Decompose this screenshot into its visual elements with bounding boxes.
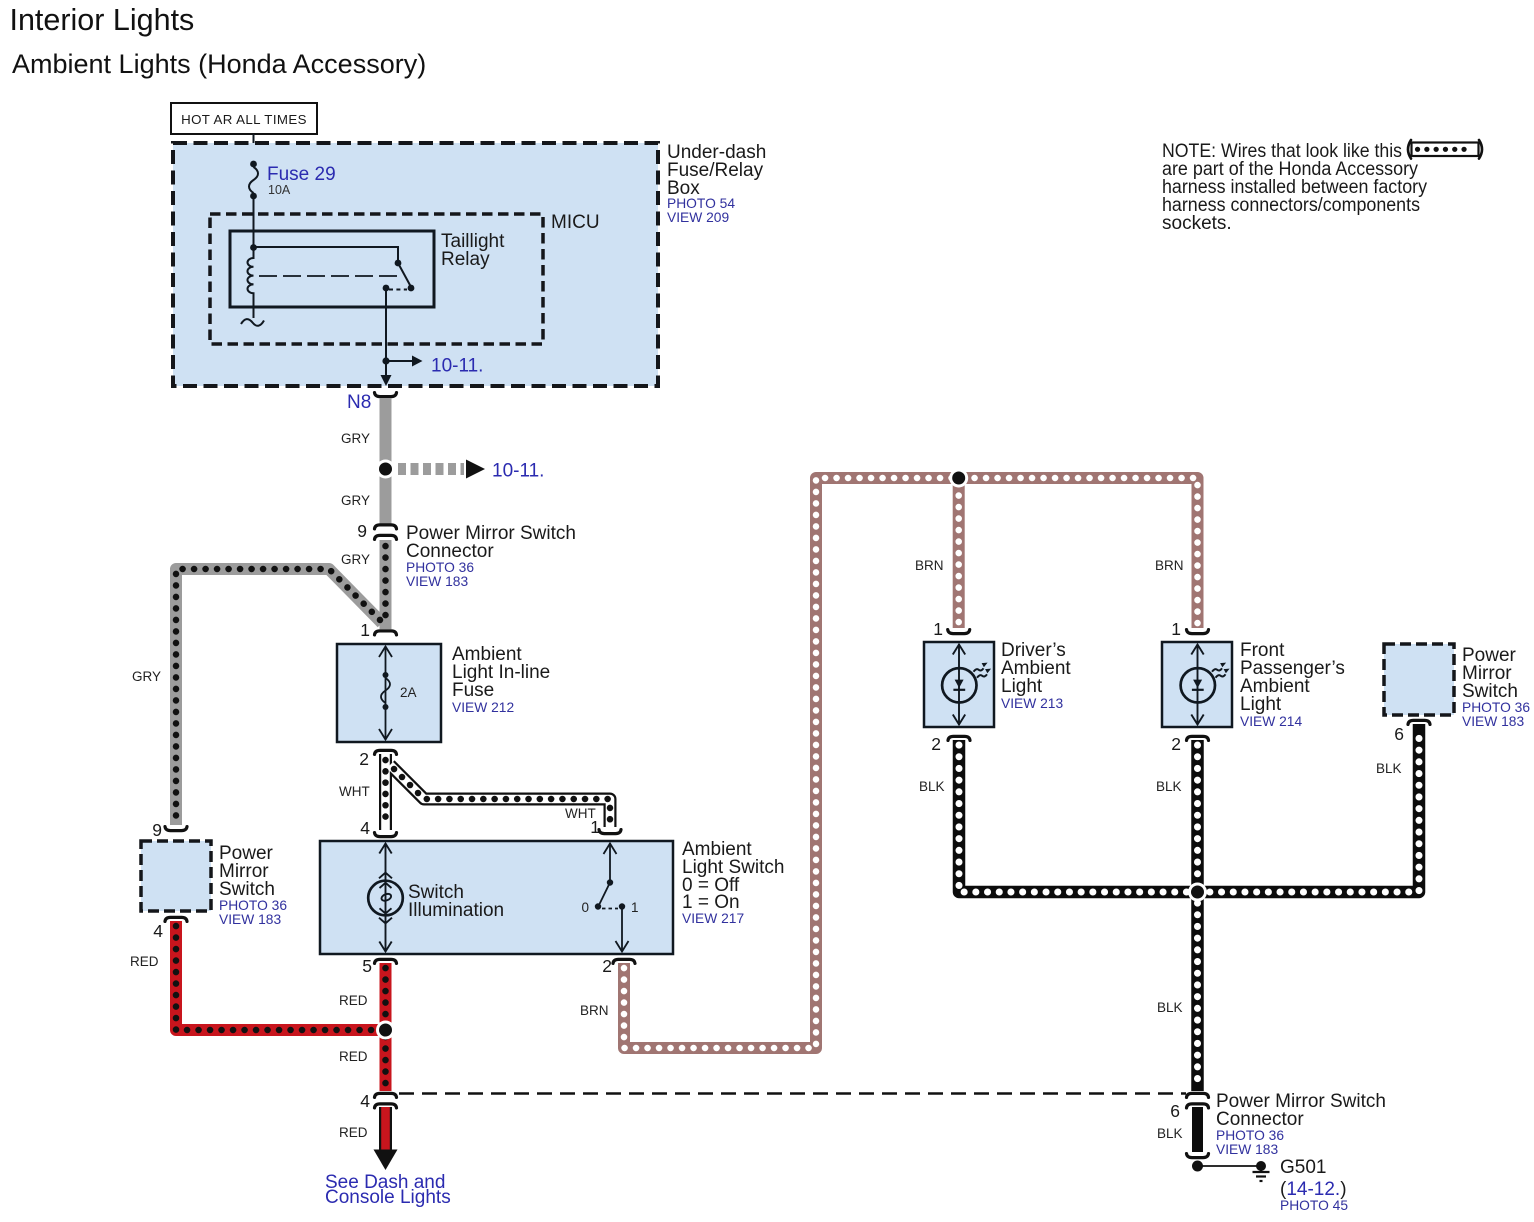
- svg-text:10-11.: 10-11.: [431, 356, 483, 377]
- svg-text:1: 1: [1171, 619, 1181, 639]
- svg-text:VIEW 183: VIEW 183: [219, 912, 281, 927]
- front passenger's ambient light box: [1162, 640, 1345, 729]
- svg-text:1: 1: [360, 620, 370, 640]
- wire: WHT main to pin 4: [379, 754, 392, 830]
- svg-text:Relay: Relay: [441, 249, 490, 270]
- svg-text:RED: RED: [339, 993, 368, 1008]
- ambient light switch contacts: [595, 843, 629, 952]
- relay output wire: [385, 288, 387, 361]
- arrow down to N8: [385, 361, 387, 376]
- svg-text:PHOTO 36: PHOTO 36: [1216, 1128, 1284, 1143]
- wire: GRY dotted branch to left power mirror switch: [176, 569, 382, 825]
- svg-text:2: 2: [931, 734, 941, 754]
- svg-text:RED: RED: [339, 1049, 368, 1064]
- svg-text:PHOTO 45: PHOTO 45: [1280, 1198, 1348, 1213]
- svg-text:4: 4: [360, 818, 370, 838]
- NOTE wire sample icon: [1408, 140, 1482, 159]
- wire: RED branch from left PMS pin 4: [176, 921, 380, 1030]
- svg-text:0: 0: [581, 900, 589, 915]
- svg-text:G501: G501: [1280, 1157, 1326, 1178]
- switch illumination lamp: [368, 843, 403, 952]
- svg-text:sockets.: sockets.: [1162, 213, 1232, 234]
- svg-text:4: 4: [153, 921, 163, 941]
- svg-text:N8: N8: [347, 392, 371, 413]
- svg-text:BLK: BLK: [1156, 779, 1182, 794]
- dashed connector line between 4 and 6: [399, 1092, 1186, 1095]
- relay coil: [241, 244, 264, 326]
- wire: BLK main down to connector 6: [1191, 892, 1204, 1091]
- svg-text:VIEW 183: VIEW 183: [406, 574, 468, 589]
- svg-text:VIEW 209: VIEW 209: [667, 210, 729, 225]
- svg-text:Console Lights: Console Lights: [325, 1187, 451, 1208]
- svg-text:GRY: GRY: [132, 669, 161, 684]
- wire: BRN from switch pin 2 up to lights: [624, 478, 1198, 1048]
- svg-text:Fuse 29: Fuse 29: [267, 164, 336, 185]
- svg-text:Switch: Switch: [1462, 681, 1518, 702]
- svg-text:HOT AR ALL TIMES: HOT AR ALL TIMES: [181, 112, 307, 127]
- wire: RED solid to arrow: [379, 1107, 392, 1151]
- svg-text:Interior Lights: Interior Lights: [10, 3, 195, 37]
- svg-text:6: 6: [1170, 1101, 1180, 1121]
- svg-text:PHOTO 54: PHOTO 54: [667, 196, 735, 211]
- svg-text:1: 1: [590, 817, 600, 837]
- svg-text:PHOTO 36: PHOTO 36: [1462, 700, 1530, 715]
- svg-text:BLK: BLK: [1376, 761, 1402, 776]
- svg-text:10-11.: 10-11.: [492, 461, 544, 482]
- svg-text:1: 1: [933, 619, 943, 639]
- svg-text:BLK: BLK: [919, 779, 945, 794]
- svg-text:Light: Light: [1001, 676, 1043, 697]
- node: red junction: [376, 1021, 395, 1040]
- wire: GRY dotted main to in-line fuse: [380, 540, 392, 629]
- wire: BLK from driver's light, bus to right PMS: [959, 724, 1419, 892]
- wire: BLK from passenger's light: [1191, 740, 1204, 892]
- svg-text:2: 2: [1171, 734, 1181, 754]
- svg-text:BLK: BLK: [1157, 1000, 1183, 1015]
- svg-text:2A: 2A: [400, 685, 417, 700]
- svg-text:Illumination: Illumination: [408, 900, 504, 921]
- svg-text:VIEW 212: VIEW 212: [452, 700, 514, 715]
- node: BRN junction: [949, 469, 968, 488]
- svg-text:GRY: GRY: [341, 493, 370, 508]
- svg-text:BLK: BLK: [1157, 1126, 1183, 1141]
- svg-text:BRN: BRN: [580, 1003, 609, 1018]
- arrow to 10-11 (top): [386, 356, 483, 377]
- svg-text:9: 9: [357, 521, 367, 541]
- node: BLK junction: [1188, 883, 1207, 902]
- wire from HOT box into fuse box: [253, 134, 255, 165]
- dashed GRY arrow to 10-11: [398, 463, 464, 475]
- svg-text:10A: 10A: [268, 183, 291, 197]
- svg-text:VIEW 183: VIEW 183: [1216, 1142, 1278, 1157]
- svg-text:Switch: Switch: [219, 879, 275, 900]
- NOTE text: [1162, 141, 1427, 234]
- svg-text:1 = On: 1 = On: [682, 892, 740, 913]
- left power mirror switch box: [141, 841, 211, 911]
- svg-text:RED: RED: [339, 1125, 368, 1140]
- relay contact and arm: [254, 247, 415, 291]
- node: junction on GRY wire: [376, 460, 395, 479]
- svg-text:WHT: WHT: [339, 784, 370, 799]
- svg-text:9: 9: [152, 820, 162, 840]
- svg-text:5: 5: [362, 956, 372, 976]
- right power mirror switch box: [1384, 644, 1530, 729]
- svg-text:RED: RED: [130, 954, 159, 969]
- wire: GRY solid from N8: [380, 398, 392, 525]
- svg-text:VIEW 214: VIEW 214: [1240, 714, 1302, 729]
- svg-text:(14-12.): (14-12.): [1280, 1179, 1347, 1200]
- svg-text:GRY: GRY: [341, 431, 370, 446]
- driver's ambient light box: [924, 640, 1071, 727]
- svg-text:Connector: Connector: [1216, 1109, 1304, 1130]
- node: relay output junction: [382, 357, 389, 364]
- svg-text:Fuse: Fuse: [452, 680, 494, 701]
- MICU box: [210, 214, 543, 344]
- svg-text:4: 4: [360, 1091, 370, 1111]
- wire: RED main from pin 5: [380, 963, 392, 1091]
- svg-text:VIEW 213: VIEW 213: [1001, 696, 1063, 711]
- svg-text:2: 2: [602, 956, 612, 976]
- svg-text:MICU: MICU: [551, 212, 600, 233]
- svg-text:Light: Light: [1240, 694, 1282, 715]
- ambient light switch box: [320, 841, 673, 954]
- svg-text:1: 1: [631, 900, 639, 915]
- wire: BLK solid to ground: [1192, 1107, 1203, 1152]
- taillight relay box: [230, 231, 434, 307]
- svg-text:VIEW 183: VIEW 183: [1462, 714, 1524, 729]
- svg-text:BRN: BRN: [915, 558, 944, 573]
- wire: WHT branch to ambient light switch pin 1: [390, 765, 610, 827]
- under-dash fuse/relay box: [173, 143, 658, 386]
- svg-text:PHOTO 36: PHOTO 36: [219, 898, 287, 913]
- svg-text:6: 6: [1394, 724, 1404, 744]
- HOT AT ALL TIMES box: [171, 103, 317, 134]
- svg-text:2: 2: [359, 749, 369, 769]
- ambient light in-line fuse box: [337, 644, 441, 742]
- svg-text:BRN: BRN: [1155, 558, 1184, 573]
- svg-text:Connector: Connector: [406, 541, 494, 562]
- svg-text:Ambient Lights (Honda Accessor: Ambient Lights (Honda Accessory): [12, 49, 426, 79]
- fuse 29: [249, 161, 258, 248]
- svg-text:PHOTO 36: PHOTO 36: [406, 560, 474, 575]
- ground G501: [1192, 1161, 1203, 1172]
- svg-text:VIEW 217: VIEW 217: [682, 911, 744, 926]
- svg-text:GRY: GRY: [341, 552, 370, 567]
